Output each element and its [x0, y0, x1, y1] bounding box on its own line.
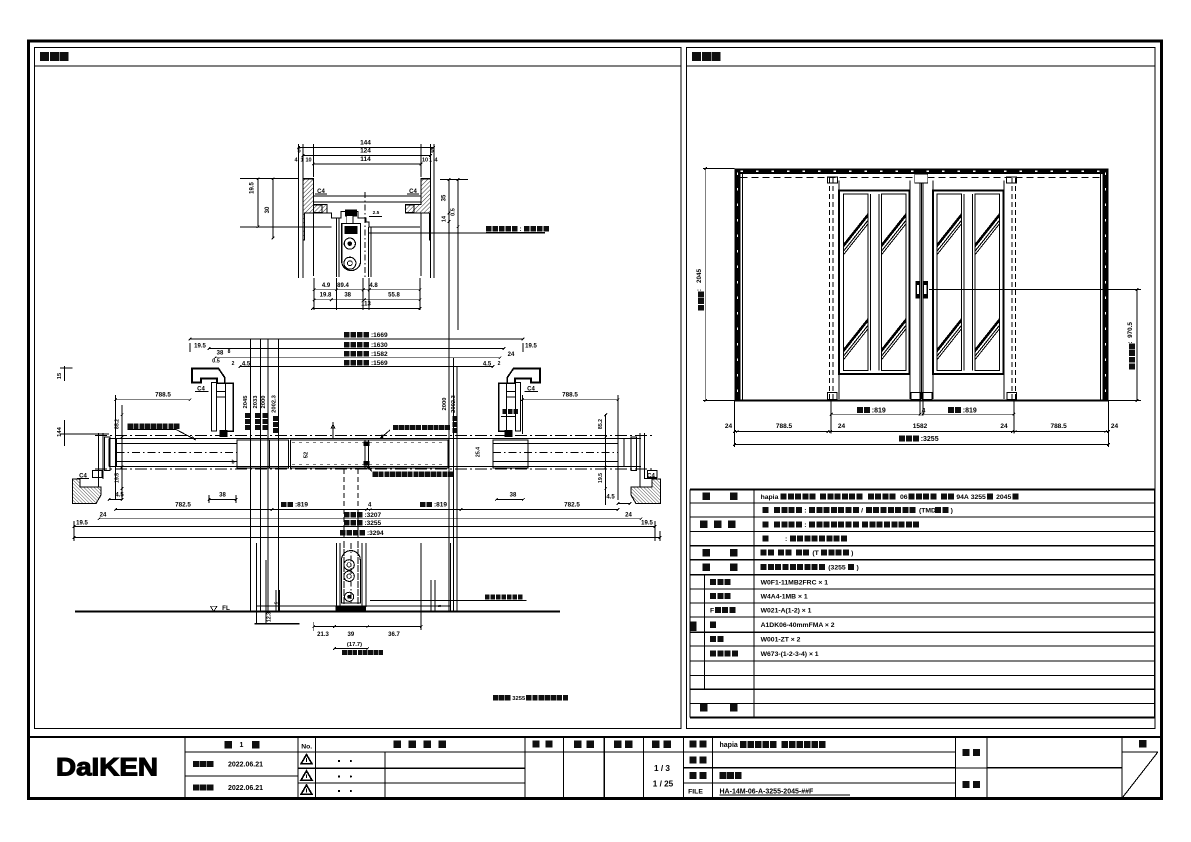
svg-text:19.5: 19.5	[76, 521, 88, 527]
table row 把手 label	[703, 549, 711, 557]
svg-text:38: 38	[217, 351, 224, 357]
svg-text:W4A4-1MB × 1: W4A4-1MB × 1	[761, 593, 808, 600]
right jamb step lines	[506, 390, 515, 392]
svg-text:5: 5	[437, 604, 442, 607]
svg-text::3294: :3294	[367, 530, 384, 537]
svg-text:19.5: 19.5	[194, 344, 206, 350]
name column row lines	[683, 751, 955, 753]
svg-text:3255: 3255	[512, 696, 526, 702]
svg-text:): )	[857, 565, 859, 572]
table row 型式 label	[703, 493, 711, 501]
頁 cell	[1122, 751, 1158, 753]
svg-text::1630: :1630	[371, 342, 388, 349]
bottom detail guide assembly	[342, 551, 361, 603]
left leaf glass frame rect	[839, 191, 910, 375]
svg-text:2000: 2000	[261, 396, 267, 409]
svg-text:39: 39	[348, 632, 355, 638]
svg-text::3255: :3255	[921, 436, 939, 443]
left jamb top hook profile	[192, 369, 225, 384]
door handles	[915, 281, 920, 299]
svg-text:4.5: 4.5	[115, 493, 124, 499]
svg-text:24: 24	[725, 423, 733, 430]
svg-text::: :	[1127, 341, 1134, 343]
bottom detail centre line	[350, 543, 352, 612]
bottom dim row 3294	[340, 530, 345, 535]
svg-text:FL: FL	[222, 605, 230, 612]
right jamb mohair label モヘア	[503, 409, 508, 414]
top detail head jamb profile	[303, 179, 327, 240]
svg-text:52: 52	[304, 452, 310, 458]
svg-text:24: 24	[100, 513, 107, 519]
svg-text:19.8: 19.8	[320, 293, 332, 299]
svg-text:113: 113	[361, 302, 371, 308]
top detail ceiling board lines	[313, 195, 421, 197]
件名 cell	[956, 767, 988, 769]
elevation left jamb black band	[735, 169, 741, 401]
svg-text:2045: 2045	[243, 395, 249, 409]
elevation right dim 引手高さ970.5	[929, 288, 1141, 290]
svg-text:4.5: 4.5	[606, 495, 615, 501]
revision row lines	[298, 751, 525, 753]
svg-text:1: 1	[240, 742, 244, 749]
svg-text:788.5: 788.5	[1050, 423, 1067, 430]
left view panel border	[35, 48, 682, 729]
svg-text:W673-(1-2-3-4) × 1: W673-(1-2-3-4) × 1	[761, 651, 819, 658]
warning triangle 1	[301, 755, 312, 764]
band left broken leaf rect	[237, 440, 289, 468]
svg-text::: :	[804, 522, 806, 529]
svg-text:12.3: 12.3	[267, 612, 273, 622]
bottom detail floor rail block	[335, 606, 366, 612]
作成 header	[614, 741, 622, 749]
svg-text:10: 10	[422, 158, 428, 164]
elevation dim row 819/4/819	[857, 407, 863, 413]
svg-text::3207: :3207	[365, 512, 382, 519]
right end cap hatched profile	[631, 479, 660, 504]
svg-text:b: b	[231, 460, 234, 466]
svg-text:(TMD: (TMD	[919, 508, 936, 515]
top detail right vertical dim lines 35/14/0.5	[448, 180, 450, 561]
meeting stile top hanger	[915, 174, 928, 183]
svg-text:19.5: 19.5	[115, 473, 121, 483]
svg-text::819: :819	[434, 502, 447, 509]
svg-text:24: 24	[508, 352, 515, 358]
svg-text:19.5: 19.5	[641, 521, 653, 527]
svg-text:782.5: 782.5	[175, 502, 191, 509]
left jamb vertical bar B	[226, 383, 234, 431]
meeting stile bottom guides	[911, 393, 921, 400]
確認 header	[574, 741, 582, 749]
svg-text:(3255: (3255	[828, 565, 846, 572]
table hinban row labels	[710, 579, 716, 585]
top detail center groove with hanger bolt	[327, 211, 420, 227]
svg-text:1 / 25: 1 / 25	[653, 780, 674, 789]
頁 diagonal	[1123, 753, 1158, 798]
svg-text:1 / 3: 1 / 3	[654, 764, 670, 773]
hidden pocket panel dashed verticals right	[1011, 178, 1013, 399]
svg-text::: :	[696, 289, 703, 291]
pocket top corner details	[828, 177, 838, 183]
band left wall return	[108, 439, 110, 467]
elevation left height dim 枠外高2045	[703, 168, 735, 170]
elevation right jamb black band	[1103, 169, 1109, 401]
svg-text:1582: 1582	[913, 423, 928, 430]
band right wall return	[623, 439, 625, 467]
svg-text:5: 5	[274, 601, 279, 604]
right jamb top hook profile	[507, 369, 540, 384]
図名 label	[689, 772, 696, 779]
leader line 電動レール	[369, 232, 545, 234]
table row 敷居 label	[703, 564, 711, 572]
top detail roller wheels	[344, 238, 355, 249]
svg-text:14: 14	[442, 215, 448, 222]
svg-text:35: 35	[442, 194, 448, 201]
svg-text:19.5: 19.5	[598, 473, 604, 483]
left panel title 断面図	[40, 52, 49, 61]
svg-text:114: 114	[360, 156, 371, 163]
svg-text:25.4: 25.4	[476, 447, 482, 457]
leaf1 centre stile lines	[869, 194, 871, 371]
right jamb vertical bar B	[499, 383, 507, 431]
leader 3D door cover note below band	[373, 472, 378, 477]
svg-text:19.5: 19.5	[250, 182, 256, 194]
svg-text:788.5: 788.5	[776, 423, 793, 430]
制定日 row	[193, 761, 199, 767]
第1版 header	[225, 741, 233, 749]
header row underline	[185, 751, 525, 753]
svg-text:2002.3: 2002.3	[451, 394, 457, 413]
band meeting stile with black squares	[364, 440, 366, 468]
改訂日 row	[193, 784, 199, 790]
svg-text:2002.3: 2002.3	[271, 394, 277, 413]
top detail extension lines from dims	[298, 144, 300, 177]
svg-text:0.5: 0.5	[451, 208, 457, 216]
band right broken leaf rect	[493, 440, 528, 468]
svg-text:2045: 2045	[696, 269, 703, 284]
title block top thick line	[29, 736, 1162, 738]
svg-text::819: :819	[872, 407, 886, 414]
right end cap wall verticals	[639, 433, 641, 487]
svg-text:19.5: 19.5	[525, 344, 537, 350]
top detail left wall lines	[298, 147, 300, 278]
left jamb bottom seal block	[219, 430, 227, 437]
top detail lower leg lines	[312, 213, 314, 276]
svg-text::: :	[804, 508, 806, 515]
svg-text:2022.06.21: 2022.06.21	[228, 762, 263, 769]
svg-text::819: :819	[963, 407, 977, 414]
mid dim row 内法幅1669	[344, 332, 349, 337]
svg-text:2045: 2045	[996, 494, 1011, 501]
warning triangle 3	[301, 785, 312, 794]
svg-text:FILE: FILE	[688, 788, 703, 795]
縮尺 header	[652, 741, 660, 749]
svg-text:24: 24	[1111, 423, 1119, 430]
leader 3Dドア用キャップ to left jamb	[128, 424, 133, 429]
svg-text:788.5: 788.5	[155, 392, 171, 399]
right view panel border	[687, 48, 1156, 729]
svg-text:24: 24	[625, 513, 632, 519]
top detail hanger roller housing	[342, 223, 361, 270]
top detail step blocks	[313, 205, 322, 212]
right leaf glass frame rect	[933, 191, 1004, 375]
bottom detail left verticals and 12.3 dim	[255, 543, 257, 624]
table row 仕上げ b content	[763, 521, 769, 527]
svg-text:2033: 2033	[253, 395, 259, 409]
band left pocket rails	[116, 443, 237, 445]
band leaf edge dashes	[292, 442, 446, 444]
leaf2 centre stile lines	[963, 194, 965, 371]
承認 header	[532, 740, 539, 747]
elevation hidden top track dashed line	[741, 177, 1103, 179]
left end cap wall verticals	[98, 433, 100, 487]
svg-text:2.5: 2.5	[373, 210, 380, 216]
warning triangle 2	[301, 771, 312, 780]
svg-text:W0F1-11MB2FRC × 1: W0F1-11MB2FRC × 1	[761, 579, 829, 586]
svg-text::: :	[785, 536, 787, 543]
svg-text:3255: 3255	[971, 494, 986, 501]
svg-text:06: 06	[900, 494, 908, 501]
svg-text:): )	[951, 508, 953, 515]
table row 備考 label	[700, 704, 708, 712]
door leaf side edges	[838, 181, 840, 400]
svg-text:144: 144	[57, 426, 63, 436]
FL marker	[210, 606, 217, 611]
svg-text:38: 38	[344, 293, 351, 299]
band dash-dot centerlines top/bottom	[95, 434, 655, 436]
table row 敷居 content	[761, 564, 767, 570]
top detail right wall lines	[429, 147, 431, 278]
top detail centre line vertical	[364, 192, 366, 278]
top detail bottom extension lines	[313, 278, 315, 310]
金具 cell	[963, 781, 970, 788]
right bracket vertical dims 85.2/19.5	[605, 414, 607, 505]
elevation bottom sill line	[735, 399, 1109, 401]
svg-text:W021-A(1-2) × 1: W021-A(1-2) × 1	[761, 607, 812, 614]
elevation dim row 枠外幅3255	[899, 435, 905, 441]
svg-text:89.4: 89.4	[337, 283, 349, 289]
pocket bottom feet	[828, 393, 838, 400]
right panel title 正面図	[692, 52, 701, 61]
bottom detail vertical door lines	[336, 543, 338, 607]
right panel title strip line	[687, 65, 1156, 67]
svg-text::819: :819	[295, 502, 308, 509]
left panel title strip line	[35, 65, 682, 67]
floor line	[75, 611, 560, 613]
svg-text:788.5: 788.5	[562, 392, 578, 399]
title block vertical dividers	[184, 737, 186, 799]
svg-text:No.: No.	[301, 744, 312, 751]
table hinban vertical label 品番	[690, 621, 697, 631]
svg-text:782.5: 782.5	[564, 502, 580, 509]
svg-text::1582: :1582	[371, 351, 388, 358]
hidden pocket panel dashed verticals left	[829, 178, 831, 399]
svg-text:): )	[851, 550, 853, 557]
right jamb vertical bar A	[515, 383, 520, 432]
band right pocket rails	[493, 443, 618, 445]
svg-text:0.5: 0.5	[212, 359, 220, 365]
svg-text:HA-14M-06-A-3255-2045-##F: HA-14M-06-A-3255-2045-##F	[720, 789, 814, 796]
svg-text:hapia: hapia	[720, 742, 738, 749]
right jamb bottom seal block	[505, 430, 513, 437]
svg-text:85.2: 85.2	[115, 419, 121, 429]
svg-text:DaIKEN: DaIKEN	[56, 754, 158, 782]
center extension dashed verticals from band to floor detail	[343, 469, 345, 604]
svg-text:970.5: 970.5	[1127, 322, 1134, 338]
svg-text:4.8: 4.8	[369, 283, 378, 289]
spec table left border	[689, 490, 691, 718]
svg-text:A1DK06-40mmFMA × 2: A1DK06-40mmFMA × 2	[761, 622, 835, 629]
svg-text:24: 24	[1000, 423, 1008, 430]
svg-text::3255: :3255	[365, 520, 382, 527]
svg-text:4.9: 4.9	[322, 283, 331, 289]
svg-text:15: 15	[57, 372, 63, 379]
mid vertical height dim lines with rotated labels	[250, 339, 252, 611]
svg-text::1669: :1669	[371, 332, 388, 339]
名称 label	[689, 741, 696, 748]
spec table header column divider	[753, 490, 755, 718]
elevation bottom extension lines	[734, 401, 736, 448]
revision sub divider	[384, 752, 386, 799]
svg-text:21.3: 21.3	[317, 632, 329, 638]
left jamb vertical bar A	[211, 383, 216, 432]
svg-text::1569: :1569	[371, 360, 388, 367]
品番 label	[689, 756, 696, 763]
svg-text:124: 124	[360, 148, 371, 155]
table row 仕上げ c content	[763, 536, 769, 542]
left jamb step lines	[217, 390, 226, 392]
svg-text:30: 30	[265, 206, 271, 213]
left end cap hatched profile	[73, 479, 102, 504]
svg-text:38: 38	[219, 493, 226, 499]
svg-text:94A: 94A	[956, 494, 969, 501]
table row 把手 content	[761, 550, 767, 556]
svg-text:(T: (T	[812, 550, 819, 557]
spec table hinban sub divider	[703, 575, 705, 690]
revision dots	[338, 760, 340, 762]
band top and bottom lines	[109, 438, 641, 440]
elevation top rail black band	[735, 169, 1109, 175]
svg-text:W001-ZT × 2: W001-ZT × 2	[761, 637, 801, 644]
svg-text:F: F	[710, 607, 714, 614]
svg-text:2022.06.21: 2022.06.21	[228, 785, 263, 792]
spec table outer top thick line	[690, 489, 1155, 491]
svg-text:36.7: 36.7	[388, 632, 400, 638]
note 図は3255幅の場合を示す	[493, 695, 498, 700]
svg-text:10: 10	[305, 158, 311, 164]
spec table right border	[1154, 490, 1156, 718]
bottom detail label 固定側	[342, 650, 347, 655]
svg-text:2000: 2000	[442, 398, 448, 411]
svg-text:8: 8	[228, 349, 231, 355]
svg-text:2: 2	[498, 361, 501, 367]
bottom detail right verticals	[420, 543, 422, 630]
table rows 仕上げ label	[700, 521, 708, 529]
elevation frame inner edge lines	[742, 174, 744, 400]
top detail hanger plates	[336, 218, 338, 277]
svg-text:144: 144	[360, 140, 371, 147]
band main leaf rect (two leaves meeting)	[291, 440, 448, 468]
svg-text:(17.7): (17.7)	[347, 642, 362, 648]
left bracket vertical dims	[121, 405, 123, 500]
図名 content 三面図	[720, 772, 727, 779]
改訂履歴 header	[393, 741, 401, 749]
svg-text:38: 38	[510, 493, 517, 499]
spec table horizontal lines	[690, 502, 1155, 504]
svg-text:2: 2	[232, 361, 235, 367]
svg-text:24: 24	[838, 423, 846, 430]
table row 仕上げ a content	[763, 507, 769, 513]
svg-text:hapia: hapia	[761, 494, 779, 501]
svg-text:85.2: 85.2	[598, 419, 604, 429]
leader triangle note above band	[393, 425, 398, 430]
svg-text:/: /	[861, 508, 863, 515]
svg-text:55.8: 55.8	[388, 293, 400, 299]
flat rail leader and label フラットレール	[370, 599, 527, 601]
